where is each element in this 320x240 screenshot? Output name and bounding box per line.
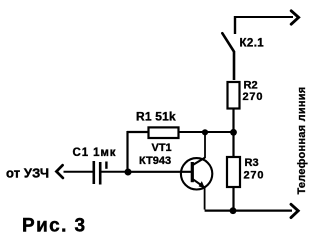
junction (R2/R3/base rail) [230, 129, 237, 136]
svg-text:С1 1мк: С1 1мк [73, 147, 117, 159]
wire (bottom rail to telephone line) [205, 210, 292, 212]
wire (collector lead) [204, 133, 206, 159]
arrow head (input from AF amp, pointing left) [56, 165, 63, 178]
wire (emitter lead down) [204, 188, 206, 210]
resistor R1 [149, 127, 179, 138]
junction (collector node) [202, 129, 208, 135]
svg-text:R1 51k: R1 51k [136, 110, 176, 124]
resistor R2 [228, 82, 240, 109]
wire (R3 top lead) [232, 133, 234, 158]
capacitor C1 [94, 161, 107, 185]
wire (R2 bottom lead) [232, 109, 234, 132]
arrow head (bottom, to telephone line) [291, 204, 298, 217]
wire (right of R1 to junction) [179, 131, 234, 133]
svg-text:К2.1: К2.1 [240, 38, 265, 50]
svg-text:270: 270 [243, 91, 264, 103]
wire (down from top rail to contact) [234, 16, 236, 34]
wire (base wire to VT1) [128, 171, 191, 173]
wire (top rail to telephone line) [235, 16, 293, 18]
wire (input to C1) [64, 171, 93, 173]
svg-text:КТ943: КТ943 [139, 155, 171, 167]
svg-text:от УЗЧ: от УЗЧ [6, 166, 49, 181]
wire (C1 to base junction) [102, 171, 129, 173]
wire (left of R1) [127, 131, 149, 133]
arrow head (top, to telephone line) [291, 11, 298, 24]
svg-text:VT1: VT1 [152, 142, 172, 154]
relay contact K2.1 [222, 33, 234, 80]
svg-text:R3: R3 [245, 157, 259, 169]
resistor R3 [227, 157, 240, 187]
junction (base node) [125, 169, 132, 176]
svg-text:Телефонная линия: Телефонная линия [296, 87, 308, 195]
wire (R3 bottom lead) [232, 187, 234, 209]
wire (R1 left leg down to base node) [126, 131, 128, 172]
svg-text:R2: R2 [244, 80, 258, 92]
svg-text:270: 270 [244, 170, 265, 182]
junction (R3 bottom node) [230, 207, 237, 214]
svg-text:Рис. 3: Рис. 3 [22, 216, 86, 237]
transistor VT1 [181, 158, 212, 190]
